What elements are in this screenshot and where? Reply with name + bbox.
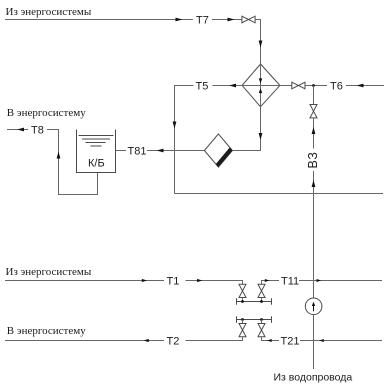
bypass valve upper-left (239, 284, 246, 297)
wire valve to T6 label (305, 85, 327, 87)
tank К/Б walls (77, 130, 116, 173)
pump arrow head (312, 302, 315, 306)
filter screen stripe (216, 147, 233, 167)
wire filter to riser corner (232, 107, 260, 151)
wire T8 left segment (7, 129, 28, 131)
wire T5 corner segment (175, 86, 194, 194)
flow arrow on T1 (142, 279, 147, 282)
stub from lower header right (261, 320, 263, 324)
valve В1 on T7 line (242, 16, 255, 23)
junction node on upper header left (241, 300, 244, 303)
wire T1 to bypass corner (186, 281, 243, 285)
svg-text:Т5: Т5 (196, 81, 209, 93)
wire T8 corner down (47, 130, 98, 195)
svg-text:Т6: Т6 (330, 81, 343, 93)
svg-text:Из энергосистемы: Из энергосистемы (6, 6, 92, 18)
wire T7 left segment (5, 19, 193, 21)
junction node on lower header left (241, 318, 244, 321)
flow arrow toward T2 (267, 339, 272, 342)
header wire y=193 (175, 193, 384, 195)
upper header with end ticks (237, 298, 272, 305)
flow arrow down to heat exchanger (259, 41, 263, 48)
stub to upper header right (261, 298, 263, 302)
flow arrow down on left drop (173, 122, 177, 129)
flow arrow toward tank (157, 149, 164, 153)
svg-text:В энергосистему: В энергосистему (7, 325, 86, 337)
wire B3 below valve (313, 118, 315, 149)
flow arrow toward T6 (357, 84, 364, 88)
check valve on B3 riser (310, 105, 317, 118)
filter F1 (diamond with stripe) (204, 134, 232, 167)
flow arrow out on T2 (144, 339, 149, 342)
flow arrow down into filter corner (259, 133, 263, 140)
svg-text:Т81: Т81 (128, 146, 147, 158)
svg-text:Т8: Т8 (31, 125, 44, 137)
svg-text:К/Б: К/Б (88, 158, 105, 170)
bypass valve lower-left (239, 324, 246, 337)
wire T81 to filter (147, 150, 204, 152)
flow arrow toward T5 (229, 84, 236, 88)
svg-text:ВЗ: ВЗ (306, 151, 320, 168)
stub from lower header left (242, 320, 244, 324)
wire from valve to corner (255, 20, 260, 65)
flow arrow out to grid (17, 128, 24, 132)
flow arrow toward junction (319, 339, 324, 342)
flow arrow rightwards after junction (317, 279, 322, 282)
wire T2 to bypass corner (186, 337, 243, 341)
flow arrow up on B3 (312, 127, 316, 134)
heat exchanger U1 (diamond) (242, 64, 280, 107)
wire T7 right segment to valve (212, 19, 242, 21)
pump arrow shaft (313, 306, 315, 312)
svg-text:Из водопровода: Из водопровода (274, 372, 353, 384)
wire through heat exchanger (260, 64, 262, 107)
tank water level lines (79, 136, 114, 147)
flow arrow up above header (312, 180, 316, 187)
junction node on upper header right (260, 300, 263, 303)
wire B3 below pump (313, 314, 315, 369)
wire from bypass valve down to T21 (262, 337, 280, 341)
wire through heat exchanger horizontal (242, 85, 280, 87)
svg-text:В энергосистему: В энергосистему (7, 107, 86, 119)
svg-text:Т21: Т21 (281, 336, 300, 348)
bypass valve upper-right (258, 284, 265, 297)
flow arrow on T7 wire (176, 18, 183, 22)
junction node (312, 84, 315, 87)
wire T2 left segment (5, 340, 164, 342)
wire B3 upper segment (313, 86, 315, 105)
svg-text:Т7: Т7 (196, 15, 209, 27)
flow arrow up toward T8 (57, 152, 61, 159)
svg-text:Т11: Т11 (281, 276, 299, 288)
junction node on lower header right (260, 318, 263, 321)
internal flow arrow down (259, 78, 263, 83)
valve В2 on T6 line (292, 82, 305, 89)
pump/meter circle (305, 298, 322, 315)
svg-text:Т1: Т1 (167, 276, 180, 288)
wire T11 to right edge (299, 280, 382, 282)
svg-text:Из энергосистемы: Из энергосистемы (6, 266, 92, 278)
flow arrow toward T11 (265, 279, 270, 282)
stub to upper header (242, 298, 244, 302)
lower header with end ticks (237, 316, 272, 323)
flow arrow before valve (228, 18, 235, 22)
wire T81 from tank (116, 150, 127, 152)
internal flow arrow up (259, 88, 263, 93)
wire from bypass up to T11 (262, 281, 280, 285)
svg-text:Т2: Т2 (167, 336, 180, 348)
wire T21 to right edge (300, 340, 382, 342)
wire T5 to heat exchanger (213, 85, 243, 87)
wire T6 to right edge (346, 85, 384, 87)
bypass valve lower-right (258, 324, 265, 337)
wire T1 left segment (5, 280, 164, 282)
flow arrow before bypass (197, 279, 202, 282)
wire heat exchanger to valve (280, 85, 292, 87)
wire B3 middle segment (313, 171, 315, 298)
